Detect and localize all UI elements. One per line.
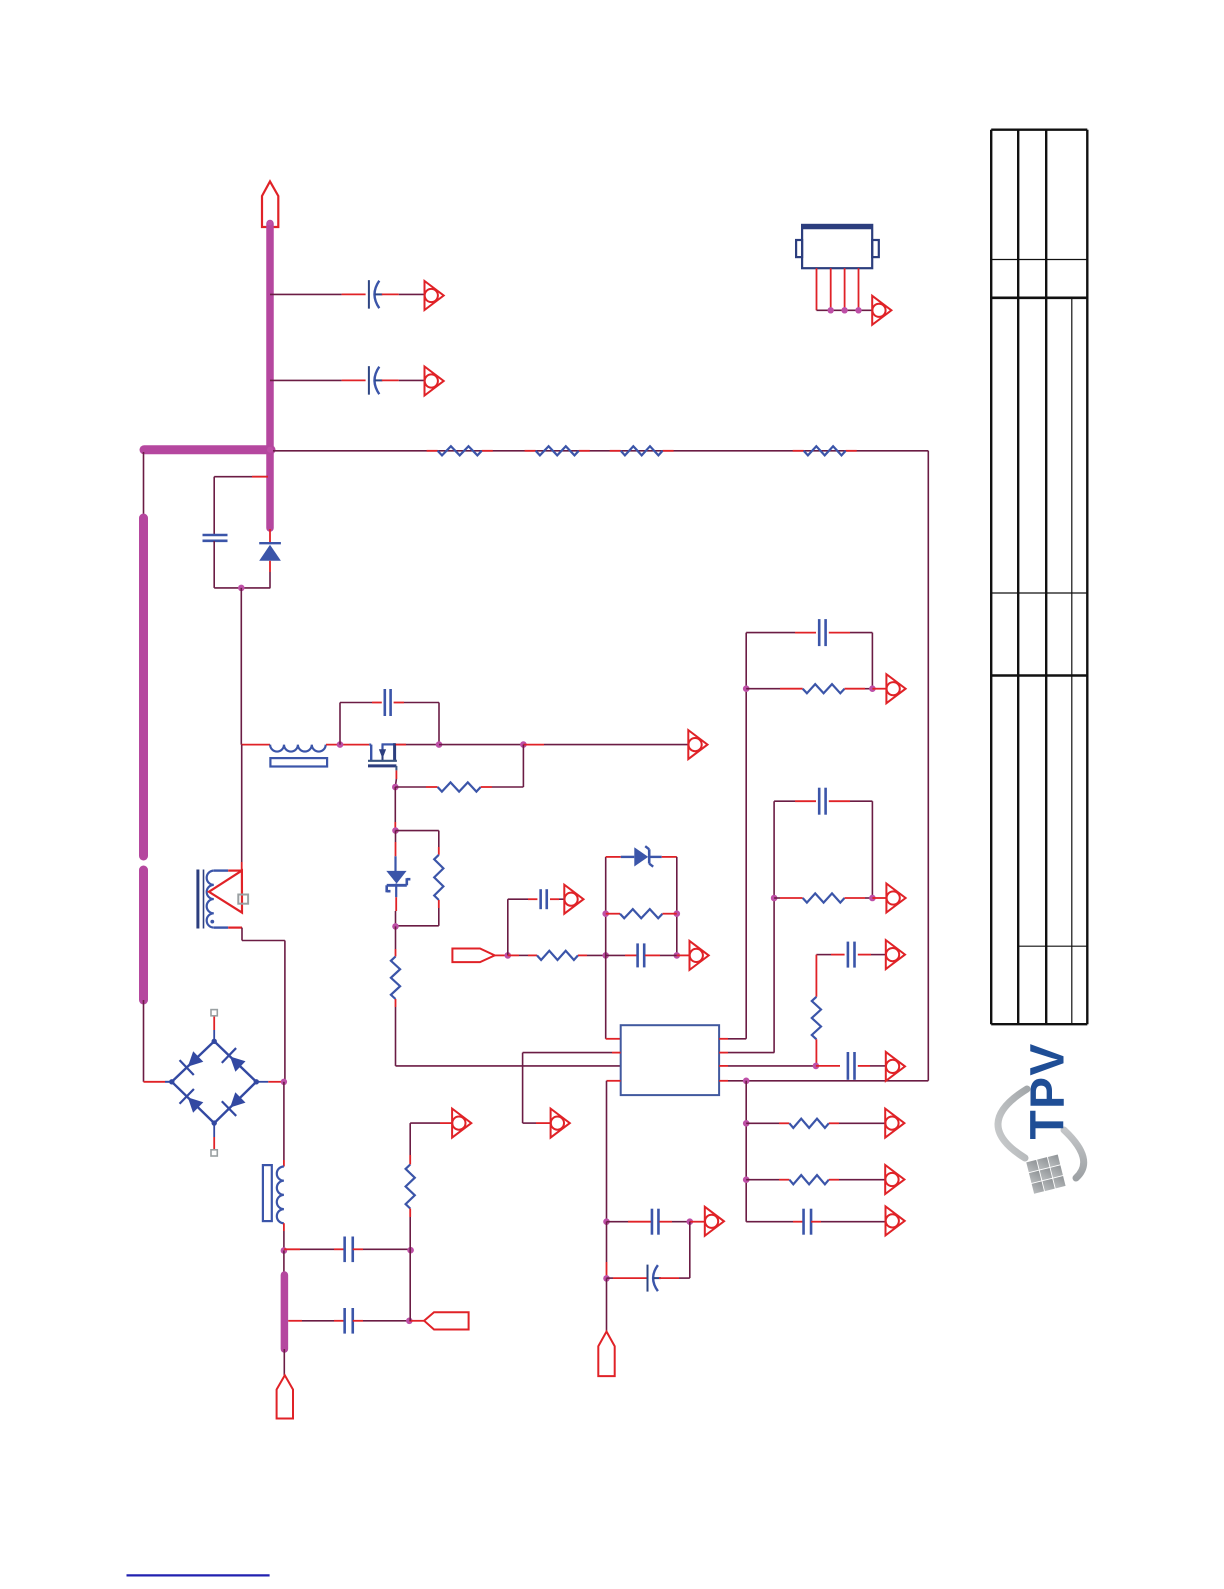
svg-text:TPV: TPV [1022,1043,1075,1140]
